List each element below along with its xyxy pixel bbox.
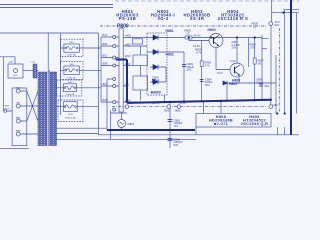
svg-text:J003: J003 [68, 82, 74, 84]
svg-text:110V: 110V [125, 99, 131, 103]
svg-text:6.4V: 6.4V [230, 59, 236, 63]
svg-text:2SC1318 R S: 2SC1318 R S [218, 16, 249, 21]
svg-text:F008-1A: F008-1A [66, 93, 75, 96]
svg-text:B05: B05 [103, 98, 108, 102]
svg-text:92V: 92V [275, 23, 280, 27]
svg-text:H805: H805 [229, 82, 237, 86]
svg-text:J001: J001 [69, 42, 75, 44]
svg-text:+I0B: +I0B [8, 62, 13, 64]
svg-text:J004: J004 [68, 114, 74, 116]
svg-text:F001 5A: F001 5A [67, 53, 76, 56]
svg-text:34.5V: 34.5V [179, 101, 186, 105]
svg-text:BRN: BRN [16, 130, 21, 132]
svg-text:B08: B08 [103, 62, 108, 66]
svg-text:100μF: 100μF [256, 80, 264, 84]
svg-text:34V: 34V [125, 83, 130, 87]
svg-text:B01: B01 [103, 54, 108, 58]
svg-text:56.4V: 56.4V [194, 34, 201, 38]
svg-text:RED: RED [16, 117, 21, 119]
svg-text:J803: J803 [164, 109, 170, 113]
svg-text:■2-071: ■2-071 [214, 122, 228, 126]
svg-text:4.7k: 4.7k [205, 64, 211, 68]
svg-text:16V: 16V [174, 124, 179, 128]
svg-text:L-01: L-01 [31, 62, 36, 64]
svg-text:16V: 16V [187, 68, 192, 72]
svg-text:M801: M801 [128, 122, 135, 126]
svg-text:SS-3R: SS-3R [190, 16, 205, 21]
svg-text:P800: P800 [117, 24, 129, 30]
svg-text:B06: B06 [103, 42, 108, 46]
svg-text:+40V: +40V [125, 34, 132, 38]
svg-text:J002: J002 [69, 64, 75, 66]
svg-text:J4-2: J4-2 [275, 20, 281, 24]
svg-text:MOV: MOV [5, 109, 11, 111]
svg-text:H802: H802 [166, 53, 174, 57]
svg-text:■H809: ■H809 [151, 91, 161, 95]
svg-text:PS-13B: PS-13B [119, 16, 136, 21]
svg-text:BLK: BLK [13, 75, 18, 77]
svg-text:-34.1V: -34.1V [152, 101, 160, 105]
svg-text:56: 56 [258, 61, 261, 65]
svg-text:270: 270 [250, 45, 255, 49]
svg-text:115V: 115V [125, 62, 131, 66]
svg-text:F002 1A: F002 1A [67, 76, 76, 79]
svg-text:B07: B07 [103, 82, 108, 86]
svg-text:0G-3: 0G-3 [157, 16, 168, 21]
svg-text:5.2V: 5.2V [217, 71, 223, 75]
svg-text:50V: 50V [205, 83, 210, 87]
svg-text:22: 22 [253, 25, 256, 29]
svg-text:H801: H801 [166, 29, 174, 33]
svg-text:4.7k: 4.7k [196, 50, 202, 54]
svg-text:115V: 115V [125, 54, 131, 58]
svg-text:470μF: 470μF [152, 78, 160, 82]
svg-text:25V: 25V [232, 46, 237, 50]
svg-text:50V: 50V [174, 143, 179, 147]
svg-text:F004-0.5A: F004-0.5A [65, 116, 76, 119]
svg-text:GB1: GB1 [273, 103, 279, 107]
svg-text:J802: J802 [175, 109, 181, 113]
svg-text:22: 22 [187, 32, 190, 36]
svg-text:50V: 50V [265, 84, 270, 88]
svg-text:ORG: ORG [16, 87, 21, 89]
svg-text:H804: H804 [208, 28, 216, 32]
svg-text:B13: B13 [103, 33, 108, 37]
svg-text:WHT: WHT [5, 106, 11, 108]
svg-text:+40V: +40V [125, 43, 132, 47]
svg-text:2SC1945 Q,R: 2SC1945 Q,R [241, 122, 269, 126]
